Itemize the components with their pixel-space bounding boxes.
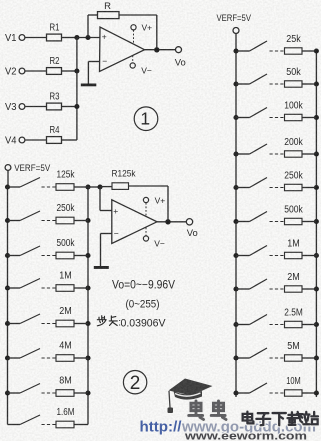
wire switch to resistor 1M <box>42 287 57 289</box>
switch S3k <box>250 383 268 393</box>
terminal V2 <box>19 68 25 74</box>
wire resistor 4M to right bus <box>74 357 88 359</box>
wire summing node to U2 + input <box>99 187 101 211</box>
wire switch to resistor 125k <box>42 186 57 188</box>
resistor 250k (c3) <box>285 184 303 190</box>
terminal Vo (circuit 2) <box>186 219 192 225</box>
resistor R2 <box>47 68 62 75</box>
terminal V1 <box>19 35 25 41</box>
switch S2f <box>20 349 40 359</box>
wire bus to switch S2f <box>8 357 21 359</box>
junction right bus row 100k (c3) <box>314 115 319 120</box>
junction right bus row 500k (c3) <box>314 219 319 224</box>
resistor 2M (c3) <box>285 286 303 292</box>
junction R3-bus <box>74 104 79 109</box>
wire switch to resistor 8M <box>42 392 57 394</box>
wire left bus (circuit 2) <box>7 187 9 425</box>
wire V2 terminal to R2 <box>25 70 47 72</box>
junction left bus row 8M <box>5 390 10 395</box>
resistor 10M (c3) <box>285 390 303 396</box>
switch S2g <box>20 384 40 394</box>
wire resistor 5M to right bus (c3) <box>302 357 316 359</box>
wire resistor 1M to right bus (c3) <box>302 255 316 257</box>
resistor R (feedback) <box>98 12 120 19</box>
wire bus to switch S3j <box>236 357 250 359</box>
junction right bus row 8M <box>85 390 90 395</box>
switch S3a <box>250 41 268 51</box>
junction feedback tap (node A) <box>85 35 90 40</box>
wire VERF stem (circuit 3) <box>235 34 237 52</box>
wire summing node to R125k <box>100 186 112 188</box>
wire resistor 200k to right bus (c3) <box>302 153 316 155</box>
wire switch to resistor 250k (c3) <box>270 187 285 189</box>
junction R1-bus <box>74 35 79 40</box>
junction left bus row 200k (c3) <box>233 151 238 156</box>
op-amp U1 <box>100 27 145 72</box>
junction right bus row 10M (c3) <box>314 390 319 395</box>
terminal V4 <box>19 137 25 143</box>
switch S2e <box>20 314 40 324</box>
resistor 2.5M (c3) <box>285 321 303 327</box>
wire resistor 500k to right bus (c3) <box>302 221 316 223</box>
wire switch to resistor 10M (c3) <box>270 392 285 394</box>
switch S3d <box>250 144 268 154</box>
wire feedback left leg <box>87 15 89 38</box>
terminal V- (U2) <box>143 236 148 241</box>
wire switch to resistor 500k (c3) <box>270 221 285 223</box>
junction right bus row 4M <box>85 355 90 360</box>
wire V3 terminal to R3 <box>25 106 47 108</box>
junction left bus row 250k (c3) <box>233 185 238 190</box>
wire V1 terminal to R1 <box>25 37 47 39</box>
resistor 200k (c3) <box>285 151 303 157</box>
junction right bus row 5M (c3) <box>314 355 319 360</box>
switch S2d <box>20 279 40 289</box>
wire U1 output <box>145 49 176 51</box>
switch S3g <box>250 246 268 256</box>
wire bus to switch S2g <box>8 392 21 394</box>
wire switch to resistor 5M (c3) <box>270 357 285 359</box>
resistor R4 <box>47 137 62 144</box>
junction left bus row 5M (c3) <box>233 355 238 360</box>
wire summing bus (circuit 1) <box>76 38 78 141</box>
wire resistor 125k to right bus <box>74 186 88 188</box>
wire VERF stem (circuit 2) <box>7 170 9 187</box>
junction summing node (circuit 2) <box>97 184 102 189</box>
label circuit number 1 <box>134 107 158 131</box>
resistor 8M <box>56 390 74 397</box>
resistor 1.6M <box>56 421 74 428</box>
wire bus to switch S2c <box>8 255 21 257</box>
wire bus to switch S2d <box>8 287 21 289</box>
switch S3b <box>250 74 268 84</box>
wire bus to switch S2e <box>8 323 21 325</box>
resistor 500k (c3) <box>285 218 303 224</box>
junction right bus row 1M (c3) <box>314 253 319 258</box>
junction left bus row 4M <box>5 355 10 360</box>
wire right bus (circuit 3) <box>315 51 317 397</box>
junction right bus row 25k (c3) <box>314 48 319 53</box>
wire switch to resistor 2M (c3) <box>270 288 285 290</box>
wire V4 terminal to R4 <box>25 139 47 141</box>
wire resistor 1.6M to right bus <box>74 424 88 426</box>
switch S2a <box>20 178 40 188</box>
resistor 50k (c3) <box>285 81 303 87</box>
watermark logo worm chars <box>189 401 204 419</box>
wire switch to resistor 4M <box>42 357 57 359</box>
terminal VERF (circuit 3) <box>233 28 239 34</box>
watermark logo cap <box>168 379 213 414</box>
resistor 125k <box>56 184 74 191</box>
resistor 25k (c3) <box>285 48 303 54</box>
junction right bus row 50k (c3) <box>314 81 319 86</box>
wire R1 to summing bus <box>62 37 77 39</box>
wire switch to resistor 2.5M (c3) <box>270 324 285 326</box>
wire R3 to summing bus <box>62 106 77 108</box>
pin V+ stem (U2) <box>145 203 147 216</box>
junction right bus row 250k <box>85 218 90 223</box>
wire switch to resistor 1M (c3) <box>270 255 285 257</box>
junction left bus row 25k (c3) <box>233 48 238 53</box>
wire bus to switch S2b <box>8 220 21 222</box>
wire bus to switch S3e <box>236 187 250 189</box>
junction left bus row 2.5M (c3) <box>233 322 238 327</box>
wire bus to switch S3g <box>236 255 250 257</box>
wire feedback right leg <box>119 14 157 16</box>
resistor R3 <box>47 103 62 110</box>
wire U2 - input to ground <box>101 233 112 235</box>
wire bus to switch S3f <box>236 221 250 223</box>
wire resistor 8M to right bus <box>74 392 88 394</box>
ground (circuit 1) <box>81 84 97 87</box>
junction right bus row 2M (c3) <box>314 286 319 291</box>
junction U2 output node <box>165 219 170 224</box>
watermark site name (Chinese) <box>243 412 254 424</box>
terminal V3 <box>19 104 25 110</box>
resistor 2M <box>56 320 74 327</box>
wire bus to switch S3h <box>236 288 250 290</box>
wire right bus to summing node (circuit 2) <box>88 186 100 188</box>
wire switch to resistor 250k <box>42 220 57 222</box>
wire right bus (circuit 2) <box>87 187 89 425</box>
junction left bus row 1M (c3) <box>233 253 238 258</box>
junction R2-bus <box>74 68 79 73</box>
switch S2b <box>20 211 40 221</box>
switch S3j <box>250 348 268 358</box>
wire bus to switch S2h <box>8 424 21 426</box>
switch S3c <box>250 108 268 118</box>
wire bus to switch S3c <box>236 117 250 119</box>
junction left bus row 500k (c3) <box>233 219 238 224</box>
wire R4 to summing bus <box>62 139 77 141</box>
wire resistor 2M to right bus (c3) <box>302 288 316 290</box>
resistor 250k <box>56 217 74 224</box>
wire left bus (circuit 3) <box>235 51 237 397</box>
label step size (Chinese) <box>97 316 106 326</box>
wire switch to resistor 1.6M <box>42 424 57 426</box>
wire switch to resistor 2M <box>42 323 57 325</box>
wire bus to switch S3a <box>236 50 250 52</box>
junction left bus row 10M (c3) <box>233 390 238 395</box>
junction right bus row 2M <box>85 321 90 326</box>
terminal VERF (circuit 2) <box>5 165 11 171</box>
pin V- stem (U2) <box>145 227 147 235</box>
terminal Vo (circuit 1) <box>176 47 182 53</box>
switch S3i <box>250 315 268 325</box>
junction right bus row 250k (c3) <box>314 185 319 190</box>
resistor 1M <box>56 285 74 292</box>
wire resistor 1M to right bus <box>74 287 88 289</box>
wire switch to resistor 200k (c3) <box>270 153 285 155</box>
resistor 4M <box>56 355 74 362</box>
terminal V- (U1) <box>130 63 135 68</box>
op-amp U2 <box>112 200 157 244</box>
wire resistor 25k to right bus (c3) <box>302 50 316 52</box>
wire bus to switch S3i <box>236 324 250 326</box>
junction left bus row 500k <box>5 253 10 258</box>
wire bus to switch S3b <box>236 83 250 85</box>
terminal V+ (U2) <box>143 197 148 202</box>
wire resistor 250k to right bus <box>74 220 88 222</box>
switch S2h <box>20 415 40 425</box>
junction U1 output node <box>154 47 159 52</box>
junction right bus row 125k <box>85 184 90 189</box>
wire R2 to summing bus <box>62 70 77 72</box>
junction right bus row 200k (c3) <box>314 151 319 156</box>
junction left bus row 125k <box>5 184 10 189</box>
junction right bus row 2.5M (c3) <box>314 322 319 327</box>
resistor 100k (c3) <box>285 114 303 120</box>
switch S3e <box>250 178 268 188</box>
junction left bus row 2M (c3) <box>233 286 238 291</box>
wire switch to resistor 25k (c3) <box>270 50 285 52</box>
wire switch to resistor 50k (c3) <box>270 83 285 85</box>
wire bus to op-amp U1 + input <box>77 37 100 39</box>
junction left bus row 50k (c3) <box>233 81 238 86</box>
junction left bus row 100k (c3) <box>233 115 238 120</box>
wire resistor 250k to right bus (c3) <box>302 187 316 189</box>
wire switch to resistor 500k <box>42 255 57 257</box>
junction left bus row 250k <box>5 218 10 223</box>
label circuit number 2 <box>123 371 146 394</box>
wire bus to switch S3k <box>236 392 250 394</box>
wire resistor 10M to right bus (c3) <box>302 392 316 394</box>
junction right bus row 1M <box>85 285 90 290</box>
wire U2 output <box>157 221 186 223</box>
wire switch to resistor 100k (c3) <box>270 117 285 119</box>
pin V+ stem (U1) <box>133 30 135 43</box>
wire feedback right leg (circuit 2) <box>129 185 169 187</box>
junction left bus row 2M <box>5 321 10 326</box>
wire resistor 100k to right bus (c3) <box>302 117 316 119</box>
junction left bus row 1M <box>5 285 10 290</box>
switch S2c <box>20 246 40 256</box>
switch S3h <box>250 279 268 289</box>
wire U1 - input to ground <box>88 61 99 63</box>
terminal V+ (U1) <box>131 25 136 30</box>
wire resistor 50k to right bus (c3) <box>302 83 316 85</box>
resistor 500k <box>56 252 74 259</box>
resistor 1M (c3) <box>285 252 303 258</box>
junction right bus row 500k <box>85 253 90 258</box>
ground (circuit 2) <box>94 266 109 269</box>
resistor 5M (c3) <box>285 355 303 361</box>
wire resistor 2M to right bus <box>74 323 88 325</box>
switch S3f <box>250 212 268 222</box>
wire bus to switch S2a <box>8 186 21 188</box>
resistor R125k (feedback) <box>112 183 129 190</box>
wire bus to switch S3d <box>236 153 250 155</box>
wire resistor 500k to right bus <box>74 255 88 257</box>
resistor R1 <box>47 34 62 41</box>
pin V- stem (U1) <box>132 56 134 63</box>
wire resistor 2.5M to right bus (c3) <box>302 324 316 326</box>
